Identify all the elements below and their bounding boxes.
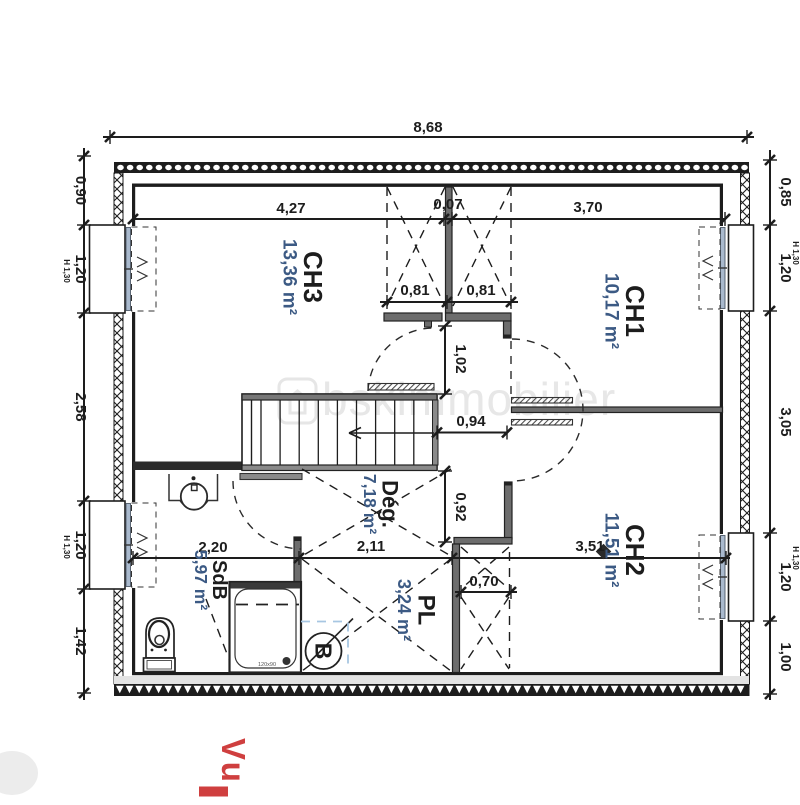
wall: jamb above CH1 door (504, 321, 512, 338)
svg-text:CH2: CH2 (620, 524, 650, 576)
svg-text:3,05: 3,05 (777, 407, 794, 436)
svg-text:0,90: 0,90 (72, 176, 89, 205)
window left lower (1,20 H1,30) (90, 501, 126, 589)
svg-text:0,92: 0,92 (452, 492, 469, 521)
dim 0,70 (455, 591, 517, 593)
stair top rail (242, 394, 437, 400)
stair bottom rail (242, 465, 437, 471)
stair enclosure (242, 394, 437, 470)
door arcs CH1+CH2 (half circle) (512, 339, 583, 481)
svg-text:5,97 m²: 5,97 m² (191, 550, 211, 610)
svg-text:CH3: CH3 (298, 251, 328, 303)
svg-text:120x90: 120x90 (258, 662, 276, 668)
svg-text:1,20: 1,20 (72, 254, 89, 283)
svg-text:1,20: 1,20 (72, 530, 89, 559)
svg-text:2,58: 2,58 (72, 392, 89, 421)
SdB dashed diagonal (206, 599, 229, 659)
svg-text:0,81: 0,81 (466, 282, 495, 299)
svg-text:1,42: 1,42 (72, 626, 89, 655)
right exterior wall (hatched) (741, 173, 750, 225)
stair treads (260, 400, 262, 465)
svg-text:0,94: 0,94 (456, 413, 486, 430)
closet left dashed box with X (386, 187, 388, 303)
stair right edge (433, 400, 439, 465)
inner face line: bottom (132, 672, 723, 675)
wall: CH1 / CH2 partition (512, 407, 723, 413)
inner face line: left (segments between windows) (132, 184, 135, 227)
door leaf CH1 (hatched) (512, 398, 573, 404)
svg-text:0,81: 0,81 (400, 282, 429, 299)
svg-text:3,51: 3,51 (575, 538, 604, 555)
svg-text:3,70: 3,70 (573, 199, 602, 216)
Deg zone X (302, 469, 451, 556)
svg-text:Vu: Vu (215, 738, 252, 785)
svg-text:H 1,30: H 1,30 (62, 535, 71, 559)
watermark logo (279, 379, 316, 423)
dim line 0,81 / 0,81 (380, 301, 518, 303)
inner face line: top (132, 184, 723, 187)
toilet (146, 618, 174, 658)
vanity counter (169, 474, 218, 508)
svg-text:0,07: 0,07 (433, 196, 462, 213)
CH2 nook X upper (461, 547, 509, 589)
VMC duct dashed light blue (301, 622, 348, 670)
top exterior wall (insulated band with ovals) (114, 162, 749, 173)
svg-text:B: B (311, 643, 337, 660)
door leaf CH3 / stair guard (hatched) (368, 384, 434, 391)
CH2 sous-pente dashed limit (509, 552, 511, 668)
left exterior wall (hatched) (114, 173, 123, 225)
wall: closet bottom bar left (384, 313, 442, 321)
PL zone X (302, 559, 451, 671)
window left upper (1,20 H1,30) (90, 225, 126, 313)
wall: jog between PL nook and CH2 (454, 538, 512, 545)
wall: partition CH3 / closets (446, 187, 453, 313)
svg-text:8,68: 8,68 (413, 119, 442, 136)
CH2 nook X lower (461, 597, 509, 669)
stair left double line (251, 400, 253, 465)
svg-text:0,85: 0,85 (777, 177, 794, 206)
wall: closet bottom bar right (446, 313, 512, 321)
door arc SdB (233, 481, 301, 549)
dim 1,02 (vertical) (444, 326, 446, 394)
svg-text:2,11: 2,11 (357, 538, 385, 555)
door leaf CH2 (hatched) (512, 420, 573, 426)
stair direction arrow (349, 432, 434, 434)
svg-text:4,27: 4,27 (276, 200, 305, 217)
wall: PL east wall (453, 544, 460, 673)
dim line left 0,90/1,20/2,58/1,20/1,42 (83, 148, 85, 700)
door arc CH3 (at stair head) (368, 328, 434, 391)
svg-text:3,24 m²: 3,24 m² (394, 579, 414, 641)
wall: SdB north wall (133, 462, 242, 471)
svg-text:PL: PL (413, 595, 440, 626)
dim 0,94 (437, 432, 507, 434)
svg-text:Dég.: Dég. (378, 480, 403, 528)
dim line 4,27 / 0,07 / 3,70 (133, 218, 725, 220)
svg-text:10,17 m²: 10,17 m² (601, 273, 622, 349)
dim line 2,20 / 2,11 / 3,51 (133, 557, 730, 559)
dim 0,92 (vertical) (444, 471, 446, 542)
wall: Deg / CH2 upper jamb (505, 482, 513, 539)
svg-text:1,00: 1,00 (777, 642, 794, 671)
shower door dashed (236, 604, 299, 606)
svg-text:H 1,30: H 1,30 (791, 241, 800, 265)
inner face line: right (segments between windows) (720, 184, 723, 227)
svg-text:H 1,30: H 1,30 (791, 546, 800, 570)
closet right dashed box with X (510, 187, 512, 300)
bottom exterior wall (zigzag band) (114, 676, 749, 684)
wash basin (181, 483, 207, 509)
window right lower (1,20 H1,30) (729, 533, 754, 621)
symbol B (VMC) (306, 633, 342, 669)
shower tray (230, 582, 302, 673)
dim line 8,68 (top) (103, 136, 754, 138)
svg-text:13,36 m²: 13,36 m² (279, 239, 300, 315)
svg-text:11,51 m²: 11,51 m² (601, 513, 622, 588)
svg-text:7,18 m²: 7,18 m² (360, 474, 380, 534)
faint scan smudge (0, 751, 38, 795)
door leaf SdB (grey) (240, 474, 302, 480)
svg-text:CH1: CH1 (620, 285, 650, 337)
window right upper (1,20 H1,30) (729, 225, 754, 311)
door leaf CH1 dashed open position (510, 341, 512, 396)
svg-text:1,02: 1,02 (452, 344, 469, 373)
dim line right 0,85/1,20/3,05/1,20/1,00 (769, 150, 771, 700)
svg-text:H 1,30: H 1,30 (62, 259, 71, 283)
wall: SdB east wall (294, 537, 301, 673)
svg-text:0,70: 0,70 (469, 573, 498, 590)
